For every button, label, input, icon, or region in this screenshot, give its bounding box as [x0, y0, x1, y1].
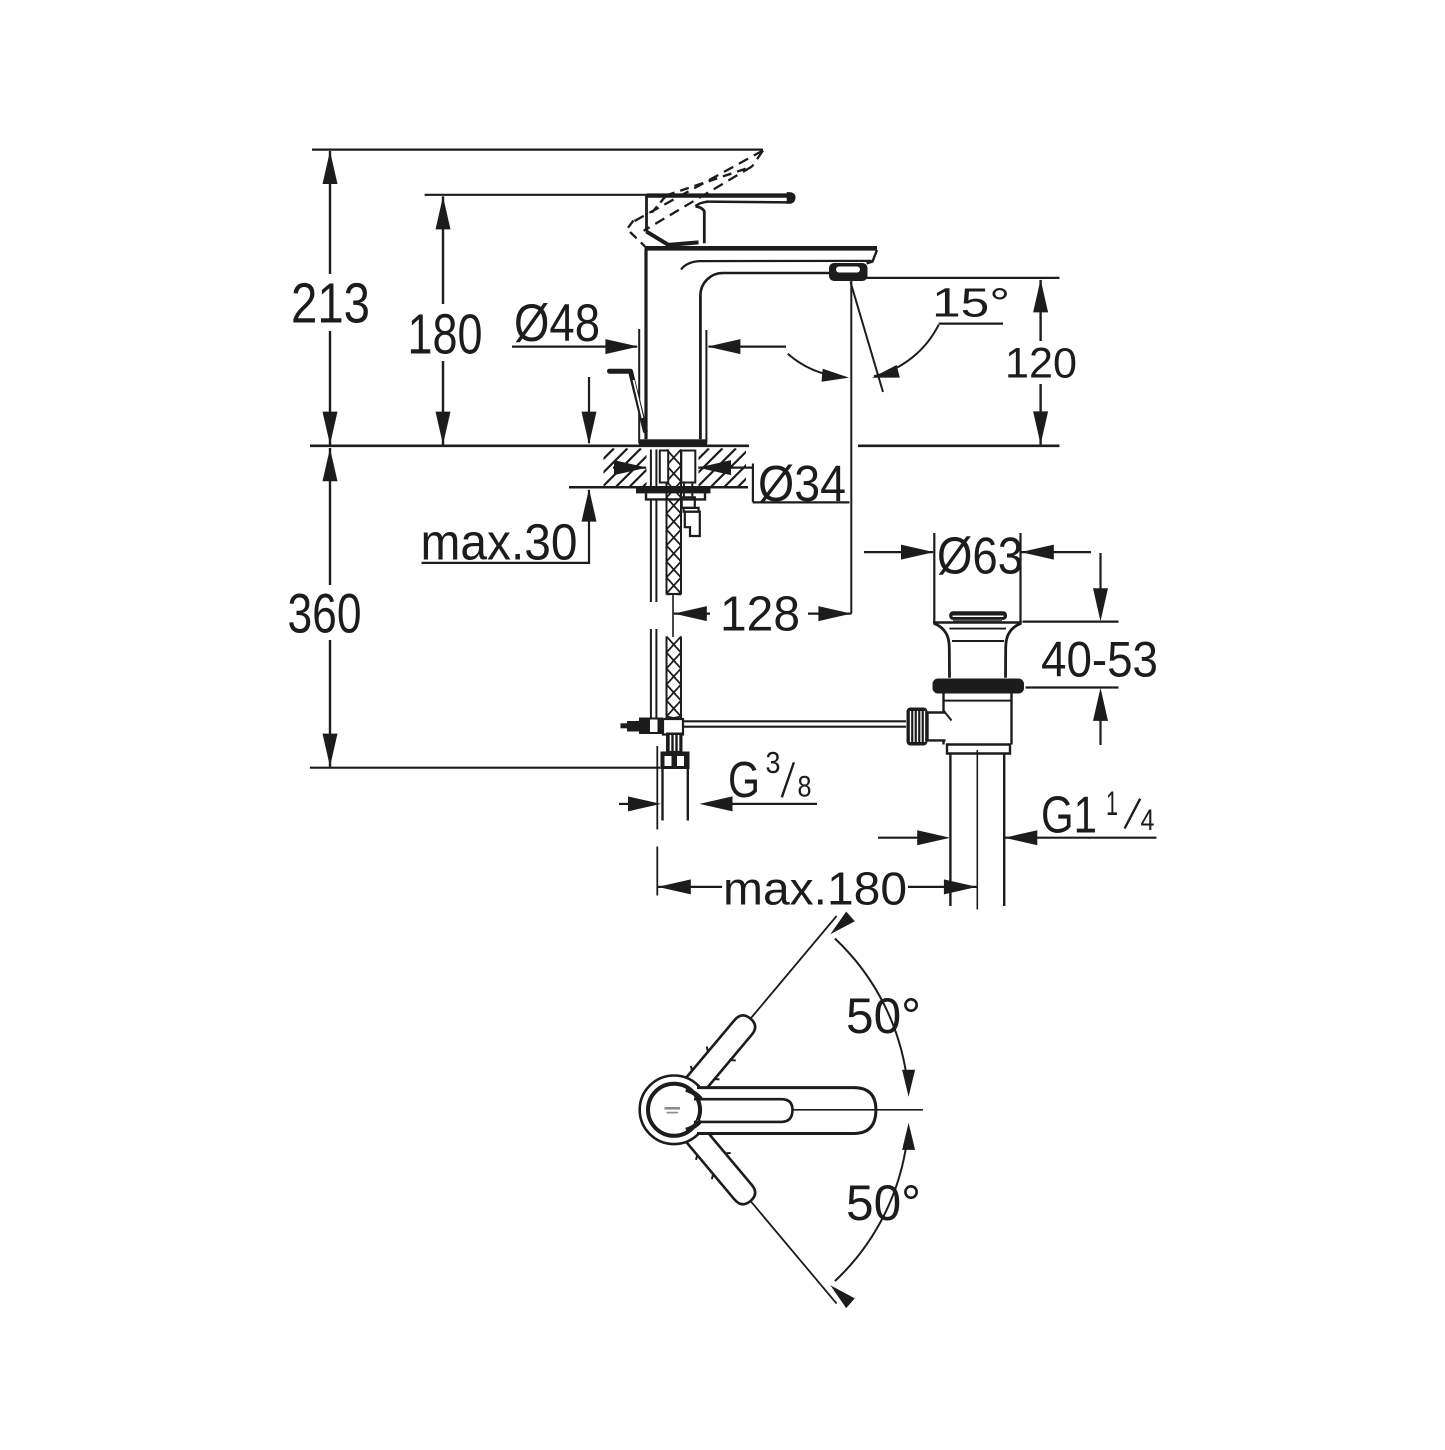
svg-text:360: 360	[288, 581, 362, 644]
svg-text:Ø63: Ø63	[937, 528, 1023, 586]
svg-text:40-53: 40-53	[1041, 632, 1158, 688]
svg-text:120: 120	[1005, 340, 1077, 388]
svg-text:3: 3	[766, 745, 781, 780]
svg-text:15°: 15°	[932, 280, 1010, 326]
svg-text:G1: G1	[1041, 786, 1097, 844]
svg-text:180: 180	[408, 302, 483, 366]
svg-text:Ø34: Ø34	[758, 455, 846, 512]
svg-text:max.180: max.180	[723, 862, 907, 914]
svg-text:max.30: max.30	[421, 514, 578, 571]
svg-text:50°: 50°	[846, 988, 921, 1044]
svg-text:50°: 50°	[846, 1175, 921, 1231]
svg-text:213: 213	[291, 272, 370, 336]
svg-text:8: 8	[798, 771, 812, 804]
svg-text:1: 1	[1106, 785, 1118, 823]
svg-text:128: 128	[720, 588, 800, 642]
svg-text:G: G	[728, 751, 760, 808]
svg-text:4: 4	[1141, 804, 1155, 837]
svg-text:Ø48: Ø48	[514, 294, 600, 353]
